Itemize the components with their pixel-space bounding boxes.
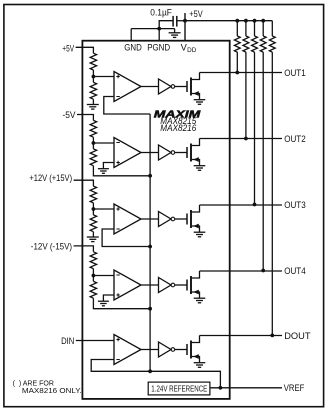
pull-up resistor R4 (260, 21, 266, 271)
svg-text:OUT2: OUT2 (284, 134, 306, 144)
minus mark U4 (116, 274, 119, 276)
junction R3 to output line (253, 203, 257, 207)
pull-up resistor R1 (234, 21, 240, 73)
+5V supply node vertical to VDD pin (184, 13, 186, 41)
ground comparator 4 plus input (98, 295, 114, 306)
node divider 3 (92, 207, 96, 211)
svg-text:MAX8216 ONLY.: MAX8216 ONLY. (22, 386, 82, 395)
ground divider 3 (87, 232, 99, 242)
wire U1 minus input to VREF bus (104, 97, 150, 115)
pull-up resistor R5 (269, 21, 275, 336)
svg-text:OUT3: OUT3 (284, 200, 306, 210)
junction R5 to output line (270, 334, 274, 338)
svg-text:OUT4: OUT4 (284, 266, 306, 276)
divider resistor R1b (90, 77, 96, 100)
minus mark U1 (116, 96, 119, 98)
inverter N5 (159, 342, 175, 357)
wire U5 output to inverter (141, 349, 159, 351)
wire U3 minus input to VREF bus (102, 229, 150, 247)
svg-text:0.1µF: 0.1µF (150, 7, 172, 17)
junction VREF output (219, 386, 223, 390)
wire VREF bus vertical (149, 114, 151, 371)
divider resistor R1a (90, 53, 96, 76)
junction +5V node (183, 19, 187, 23)
wire output DOUT (200, 335, 283, 337)
wire U3 output to inverter (141, 218, 159, 220)
wire node to comparator input (93, 76, 114, 78)
transistor Q1 (187, 73, 200, 100)
reference box 1.24V REFERENCE (148, 382, 210, 395)
wire U2 output to inverter (141, 152, 159, 154)
divider resistor R4a (90, 252, 96, 276)
PGND pin riser (158, 29, 160, 41)
svg-text:OUT1: OUT1 (284, 68, 306, 78)
node divider 1 (92, 75, 96, 79)
junction VREF bus row 4 (148, 307, 152, 311)
wire node to comparator input (93, 142, 114, 144)
ground Q4 source (194, 298, 206, 303)
junction rail (261, 19, 265, 23)
divider resistor R3a (90, 186, 96, 209)
svg-text:MAX8216: MAX8216 (160, 123, 196, 133)
wire DIN input (76, 340, 114, 342)
capacitor C1 0.1uF plates (173, 16, 177, 27)
svg-text:+12V (+15V): +12V (+15V) (29, 173, 72, 183)
plus mark U5 (116, 338, 119, 341)
wire input -5V (77, 115, 93, 121)
inverter N3 (159, 212, 175, 227)
ground symbol top bypass (169, 29, 181, 38)
wire divider 2 to VREF bus (93, 166, 150, 176)
svg-text:GND: GND (124, 42, 142, 52)
junction rail (235, 19, 239, 23)
svg-text:-5V: -5V (63, 110, 77, 120)
divider resistor R3b (90, 209, 96, 232)
transistor Q5 (187, 336, 200, 363)
wire U4 output to inverter (141, 284, 159, 286)
junction R2 to output line (244, 137, 248, 141)
ground comparator 2 plus input (98, 163, 114, 174)
plus mark U3 (116, 207, 119, 210)
op-amp comparator U2 (114, 138, 141, 168)
inverter N1 (159, 79, 175, 94)
wire output OUT4 (200, 270, 283, 272)
ground Q3 source (194, 232, 206, 237)
junction VREF bus row 2 (148, 174, 152, 178)
junction VREF bus bottom (148, 369, 152, 373)
inverter N2 (159, 145, 175, 160)
pull-up resistor R3 (252, 21, 258, 205)
wire U5 minus input to VREF (91, 360, 220, 388)
svg-text:-12V (-15V): -12V (-15V) (31, 242, 72, 252)
pin label VDD (181, 42, 197, 54)
pull-up resistor R2 (243, 21, 249, 139)
svg-text:PGND: PGND (147, 42, 170, 52)
svg-text:DOUT: DOUT (284, 331, 311, 341)
minus mark U2 (116, 142, 119, 144)
op-amp comparator U1 (114, 72, 141, 102)
node divider 4 (92, 274, 96, 278)
op-amp comparator U5 (114, 335, 141, 365)
wire U1 output to inverter (141, 86, 159, 88)
junction VREF bus row 3 (148, 245, 152, 249)
node divider 2 (92, 141, 96, 145)
ground Q2 source (194, 166, 206, 171)
junction PGND/cap (157, 27, 161, 31)
junction rail (244, 19, 248, 23)
wire cap left plate to corner (159, 21, 172, 29)
junction R4 to output line (261, 269, 265, 273)
wire GND-PGND to ground (131, 28, 174, 30)
wire divider 4 to VREF bus (93, 298, 150, 309)
divider resistor R4b (90, 276, 96, 299)
divider resistor R2a (90, 120, 96, 143)
transistor Q4 (187, 271, 200, 298)
svg-text:+5V: +5V (189, 9, 203, 19)
wire inverter to gate Q1 (175, 86, 187, 88)
svg-text:+5V: +5V (62, 44, 74, 54)
wire input +5V (76, 47, 94, 53)
inverter N4 (159, 278, 175, 293)
wire cap right plate to +5V node (177, 20, 185, 22)
wire node to comparator input (93, 275, 114, 277)
wire output OUT3 (200, 204, 283, 206)
wire +5V pull-up rail (185, 20, 272, 22)
wire input -12V (-15V) (74, 246, 94, 252)
svg-text:1.24V REFERENCE: 1.24V REFERENCE (151, 384, 207, 393)
op-amp comparator U3 (114, 204, 141, 234)
ground Q1 source (194, 100, 206, 105)
svg-text:VREF: VREF (284, 383, 305, 393)
junction rail (253, 19, 257, 23)
svg-text:DD: DD (187, 47, 197, 54)
svg-text:DIN: DIN (61, 336, 74, 346)
divider resistor R2b (90, 143, 96, 166)
transistor Q2 (187, 139, 200, 166)
op-amp comparator U4 (114, 270, 141, 300)
wire output OUT1 (200, 72, 283, 74)
ground Q5 source (194, 363, 206, 368)
wire input +12V (+15V) (74, 180, 94, 186)
wire inverter to gate Q4 (175, 284, 187, 286)
wire inverter to gate Q2 (175, 152, 187, 154)
ground divider 1 (87, 99, 99, 109)
IC boundary box MAX8215/MAX8216 (82, 41, 229, 399)
wire inverter to gate Q5 (175, 349, 187, 351)
wire VREF output (210, 387, 282, 389)
junction R1 to output line (235, 71, 239, 75)
minus mark U5 (116, 359, 119, 361)
plus mark U2 (116, 161, 119, 164)
plus mark U4 (116, 293, 119, 296)
transistor Q3 (187, 205, 200, 232)
GND pin riser (130, 29, 132, 41)
plus mark U1 (116, 75, 119, 78)
wire node to comparator input (93, 208, 114, 210)
minus mark U3 (116, 228, 119, 230)
wire output OUT2 (200, 138, 283, 140)
wire inverter to gate Q3 (175, 218, 187, 220)
